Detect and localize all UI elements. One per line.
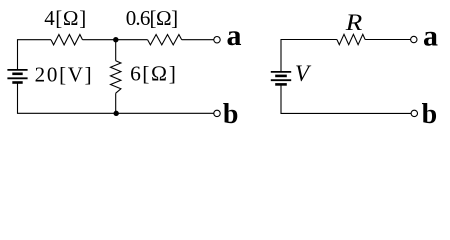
terminal b (right circuit) <box>411 110 417 116</box>
terminal a (right circuit) <box>411 36 417 42</box>
svg-text:R: R <box>345 10 363 35</box>
node: bottom junction <box>114 111 119 116</box>
wire: to terminal a left <box>182 39 214 41</box>
resistor 0.6 ohm <box>148 35 182 45</box>
resistor R <box>337 34 365 44</box>
wire: left circuit bottom-left segment <box>18 83 214 114</box>
battery E2 V <box>271 72 291 85</box>
svg-text:6[Ω]: 6[Ω] <box>130 61 177 85</box>
terminal a (left circuit) <box>214 37 220 43</box>
terminal b (left circuit) <box>214 110 220 116</box>
svg-text:b: b <box>422 99 438 130</box>
wire: R to terminal a right <box>365 39 411 41</box>
svg-text:4[Ω]: 4[Ω] <box>44 6 87 30</box>
wire: junction down to 6 ohm <box>115 40 117 61</box>
node: top junction <box>113 37 118 42</box>
wire: 6 ohm down to bottom wire <box>115 93 117 113</box>
wire: left circuit top-left segment <box>18 40 52 70</box>
svg-text:b: b <box>223 99 239 130</box>
resistor 4 ohm <box>51 35 83 45</box>
svg-text:a: a <box>227 19 242 52</box>
wire: top middle segment <box>83 39 148 41</box>
battery E1 20V <box>7 70 27 83</box>
wire: right circuit bottom segment <box>281 84 411 113</box>
svg-text:a: a <box>423 20 438 53</box>
wire: right circuit top segment <box>281 40 337 72</box>
svg-text:0.6[Ω]: 0.6[Ω] <box>126 6 178 30</box>
resistor 6 ohm (vertical) <box>111 61 121 93</box>
svg-text:20[V]: 20[V] <box>35 63 94 87</box>
